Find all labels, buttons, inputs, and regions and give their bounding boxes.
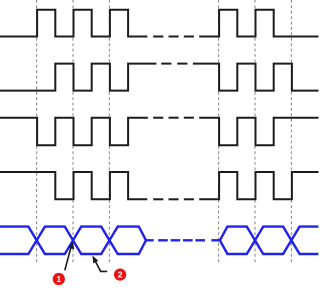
waveform: clock phase 4 (fourth waveform, complement of phase 2) [0, 172, 319, 199]
waveform: clock phase 1 (top waveform) [0, 10, 319, 37]
callout circle 1 (red badge, label 1) [53, 273, 65, 285]
svg-text:2: 2 [118, 270, 123, 280]
callout circle 2 (red badge, label 2) [114, 269, 126, 281]
callout arrow 1 (points to bus crossover at x=73) [65, 242, 74, 271]
dashed vertical gridline t5 at x=291.4 [290, 0, 292, 265]
waveform: clock phase 3 (third waveform, complement of phase 1) [0, 118, 319, 146]
dashed vertical gridline t2 at x=109.4 [108, 0, 110, 265]
callout arrow 2 (points to bus valid-data segment) [92, 256, 107, 272]
dashed vertical gridline t1 at x=73.0 [72, 0, 74, 265]
dashed vertical gridline t3 at x=218.6 [218, 0, 220, 265]
data bus waveform (blue, crossover/valid-data pattern) [0, 227, 318, 254]
waveform: clock phase 2 (second waveform) [0, 64, 319, 91]
dashed vertical gridline t4 at x=255.0 [254, 0, 256, 265]
dashed vertical gridline t0 at x=36.6 [36, 0, 38, 265]
svg-text:1: 1 [56, 274, 61, 284]
